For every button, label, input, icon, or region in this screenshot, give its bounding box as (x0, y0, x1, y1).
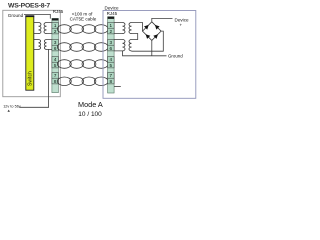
transformer T2 right: secondary winding (129, 40, 132, 51)
svg-text:RJ45: RJ45 (107, 11, 118, 16)
svg-text:Switch: Switch (28, 71, 34, 86)
svg-text:6: 6 (110, 46, 113, 51)
transformer T1 left: bottom stub (34, 33, 39, 35)
twisted pair 3-6 (57, 43, 108, 52)
svg-text:WS-POES-8-7: WS-POES-8-7 (8, 3, 50, 10)
power polarity mark (8, 110, 10, 112)
svg-text:5: 5 (110, 63, 113, 68)
svg-text:1: 1 (54, 23, 57, 28)
switch enclosure box (3, 10, 61, 96)
svg-text:7: 7 (110, 73, 113, 78)
wire bridge bottom to ground (151, 40, 153, 55)
transformer T2 right: stubs from pins 3,6 (114, 40, 122, 51)
transformer T2 left: primary winding (39, 40, 41, 50)
svg-text:2: 2 (54, 29, 57, 34)
transformer T1 left: primary winding (39, 23, 42, 34)
twisted pair 4-5 (57, 60, 108, 69)
svg-text:6: 6 (54, 46, 57, 51)
svg-text:+: + (180, 22, 183, 27)
transformer T1 left: secondary stubs to pins 1,2 (47, 23, 53, 34)
wire ground tap from T2 primary bottom (123, 51, 167, 56)
transformer T2 left: bottom stub (34, 48, 39, 50)
wire bridge top to Device + (152, 18, 173, 21)
svg-text:4: 4 (110, 57, 113, 62)
svg-text:Ground: Ground (168, 54, 183, 59)
transformer T2 right: primary winding (123, 40, 126, 51)
wire power injection 12-56v (19, 49, 48, 107)
svg-text:12v to 56v: 12v to 56v (3, 105, 21, 109)
RJ45 jack left (column) (52, 18, 59, 92)
wire T1 secondary bottom to T2 secondary top (132, 34, 138, 40)
transformer T1 left: top stub (34, 22, 39, 24)
transformer T2 left: top stub (34, 39, 39, 41)
svg-text:2: 2 (110, 29, 113, 34)
device enclosure box (103, 11, 196, 99)
svg-text:3: 3 (110, 40, 113, 45)
svg-text:10 / 100: 10 / 100 (78, 111, 102, 118)
stub below pin 8 right (114, 85, 121, 87)
svg-text:Mode A: Mode A (78, 100, 103, 109)
wire T1 secondary top to bridge left corner (132, 23, 143, 32)
svg-text:8: 8 (110, 79, 113, 84)
wire ground to RJ45 shield (24, 14, 50, 18)
pin numbers left (54, 23, 57, 84)
transformer T1 left: secondary winding (44, 23, 47, 34)
twisted pair 1-2 (57, 25, 108, 34)
switch bar (26, 16, 34, 90)
diode bridge D1 (143, 22, 162, 41)
svg-text:Ground: Ground (8, 13, 24, 18)
transformer T1 right: primary winding (123, 23, 126, 34)
pin numbers right (110, 23, 113, 84)
wire T2 secondary bottom to bridge right corner (132, 31, 164, 51)
svg-text:Device: Device (105, 6, 119, 11)
svg-text:5: 5 (54, 63, 57, 68)
transformer T2 left: secondary stubs to pins 3,6 (47, 40, 53, 50)
svg-text:CAT5E cable: CAT5E cable (70, 17, 97, 22)
bridge diodes (144, 25, 160, 39)
RJ45 jack right (column) (108, 17, 115, 93)
svg-text:4: 4 (54, 57, 57, 62)
transformer T1 right: secondary winding (129, 23, 131, 34)
svg-text:1: 1 (110, 23, 113, 28)
svg-text:7: 7 (54, 73, 57, 78)
svg-text:8: 8 (54, 79, 57, 84)
svg-text:3: 3 (54, 40, 57, 45)
transformer T2 left: secondary winding (44, 40, 46, 50)
transformer T1 right: stubs from pins 1,2 (114, 23, 122, 34)
twisted pair 7-8 (57, 77, 108, 86)
svg-text:RJ45: RJ45 (53, 9, 64, 14)
